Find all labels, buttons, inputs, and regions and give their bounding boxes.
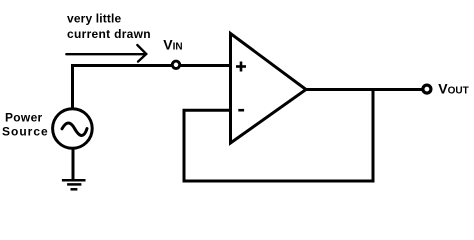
svg-text:current drawn: current drawn [67,27,151,41]
svg-text:Source: Source [2,125,49,139]
node VOUT terminal [423,85,431,93]
svg-text:very little: very little [67,11,122,25]
op-amp - input marker [238,109,244,112]
wire: power source bottom to ground [72,148,75,180]
wire: output to VOUT terminal [305,88,422,91]
annotation: very little current drawn [67,11,151,41]
AC power source [53,109,93,149]
op-amp + input marker [236,62,246,72]
label Power Source [2,110,49,138]
node VIN terminal [172,61,179,68]
wire: feedback loop (inverting input, down, along bottom, up to output) [184,90,373,182]
ground [62,180,86,189]
svg-text:Power: Power [5,110,43,124]
op-amp U1 [231,34,307,144]
wire: power source top to op-amp non-inverting input [73,66,231,108]
current direction arrow [66,45,146,62]
